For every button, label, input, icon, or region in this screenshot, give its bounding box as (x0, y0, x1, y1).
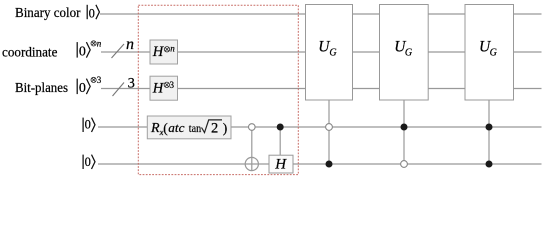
wire q3 (ancilla 1) (98, 126, 542, 128)
svg-text:0: 0 (79, 81, 86, 96)
svg-text:H: H (152, 44, 165, 60)
svg-text:H: H (152, 81, 165, 97)
vertical control wire 2 (403, 100, 405, 164)
vertical control wire 3 (488, 100, 490, 164)
svg-text:coordinate: coordinate (2, 46, 57, 61)
wire q1 (coordinate) (101, 51, 542, 53)
svg-text:): ) (223, 120, 228, 135)
gate H^(⊗3) q2 (150, 76, 178, 100)
svg-text:0: 0 (89, 7, 95, 21)
wire q0 (Binary color) (100, 13, 542, 15)
sqrt(2) radical (202, 120, 223, 133)
superscript ⊗3 on q2 ket (91, 77, 96, 82)
open control on q3 (249, 124, 256, 131)
svg-text:Binary color: Binary color (15, 6, 81, 21)
svg-text:3: 3 (128, 75, 135, 91)
filled control on q4 (block3) (486, 161, 493, 168)
ket |0>^(⊗n) q1 (77, 42, 90, 58)
controlled-UG block 2 (380, 5, 429, 168)
filled control on q3 (277, 124, 284, 131)
dashed red box (state preparation) (138, 5, 298, 174)
svg-text:n: n (170, 44, 175, 54)
svg-text:R: R (150, 121, 160, 136)
svg-text:G: G (329, 48, 336, 59)
svg-text:3: 3 (170, 80, 175, 90)
svg-text:G: G (490, 48, 497, 59)
wire q4 (ancilla 2) (98, 163, 542, 165)
gate H^(⊗n) U-box q1 (150, 40, 178, 64)
svg-text:2: 2 (211, 121, 218, 137)
svg-text:G: G (405, 48, 412, 59)
filled control on q4 (block1) (326, 161, 333, 168)
control vertical wire (Rx block, open-ctrl to CNOT target) (251, 127, 253, 171)
filled control on q3 (block3) (486, 124, 493, 131)
open control on q3 (block1) (326, 124, 333, 131)
ket |0>^(⊗3) q2 (77, 79, 90, 95)
gate Rx(atc tan sqrt2) q3 (147, 116, 231, 139)
U_G box 3 (465, 5, 514, 101)
svg-text:0: 0 (85, 117, 91, 131)
svg-text:3: 3 (97, 75, 102, 85)
ket |0> q3 (83, 118, 95, 132)
vertical control wire 1 (328, 100, 330, 164)
controlled-UG block 1 (306, 5, 353, 168)
bus slash 3 on q2 (113, 83, 125, 97)
controlled-UG block 3 (465, 5, 514, 168)
U_G box 1 (306, 5, 353, 101)
wire q2 (Bit-planes) (101, 88, 542, 90)
svg-text:0: 0 (79, 45, 86, 60)
ket |0> q0 (87, 5, 99, 19)
svg-text:tan: tan (189, 121, 201, 135)
superscript ⊗n on q1 ket (91, 41, 96, 46)
bus slash n on q1 (112, 44, 125, 58)
svg-text:H: H (274, 157, 287, 173)
svg-text:Bit-planes: Bit-planes (15, 81, 68, 96)
svg-text:n: n (126, 36, 134, 53)
open control on q4 (block2) (401, 161, 408, 168)
svg-text:n: n (97, 39, 102, 49)
U_G box 2 (380, 5, 429, 101)
gate H on q4 (269, 155, 293, 173)
control vertical wire (filled ctrl to H gate) (279, 127, 281, 155)
ket |0> q4 (83, 155, 95, 169)
CNOT target ⊕ on q4 (245, 157, 258, 170)
filled control on q3 (block2) (401, 124, 408, 131)
svg-text:0: 0 (85, 155, 91, 169)
svg-text:atc: atc (168, 121, 185, 135)
